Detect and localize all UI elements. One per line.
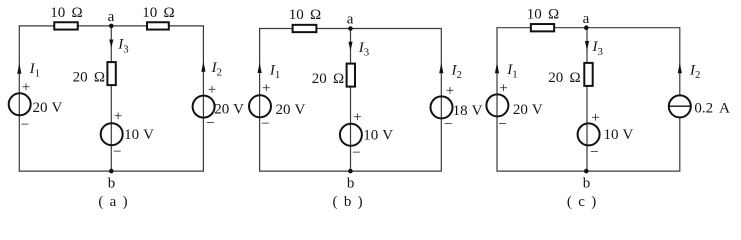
current arrow I1 (circuit c) bbox=[495, 62, 518, 81]
svg-text:−: − bbox=[261, 116, 269, 132]
wire: circuit (c) outer loop bbox=[497, 28, 680, 171]
resistor 20 ohm (circuit b) bbox=[312, 64, 355, 87]
svg-text:b: b bbox=[347, 175, 355, 191]
svg-text:+: + bbox=[353, 110, 361, 126]
svg-text:I3: I3 bbox=[358, 40, 369, 59]
resistor 20 ohm (circuit a) bbox=[73, 62, 116, 85]
svg-text:−: − bbox=[113, 144, 121, 160]
svg-text:20 Ω: 20 Ω bbox=[312, 71, 344, 87]
svg-text:20 Ω: 20 Ω bbox=[73, 69, 105, 85]
svg-text:10 Ω: 10 Ω bbox=[289, 7, 321, 23]
resistor 10 ohm (circuit c, top #1) bbox=[527, 7, 559, 32]
svg-text:10 V: 10 V bbox=[363, 128, 393, 144]
svg-text:10 V: 10 V bbox=[604, 127, 634, 143]
svg-text:I2: I2 bbox=[689, 62, 700, 81]
current arrow I2 (circuit c) bbox=[678, 62, 701, 81]
svg-text:I3: I3 bbox=[592, 39, 603, 58]
svg-text:+: + bbox=[499, 81, 507, 97]
svg-text:20 V: 20 V bbox=[276, 102, 306, 118]
svg-text:I2: I2 bbox=[211, 60, 222, 79]
node a (circuit b) bbox=[347, 11, 354, 30]
node b (circuit b) bbox=[347, 169, 355, 192]
svg-text:−: − bbox=[499, 116, 507, 132]
current arrow I2 (circuit b) bbox=[439, 62, 462, 81]
wire: circuit (b) middle branch from node a to node b bbox=[350, 29, 352, 172]
voltage source 10 V (circuit c, middle branch) bbox=[578, 110, 634, 161]
node a (circuit c) bbox=[583, 11, 590, 30]
current source 0.2 A (circuit c, right branch) bbox=[668, 95, 730, 117]
svg-text:+: + bbox=[22, 80, 30, 96]
voltage source 20 V (circuit c, left branch) bbox=[486, 81, 542, 133]
svg-text:20 Ω: 20 Ω bbox=[548, 70, 580, 86]
svg-text:+: + bbox=[262, 81, 270, 97]
wire: circuit (a) middle branch from node a to node b bbox=[110, 26, 112, 171]
svg-text:+: + bbox=[114, 108, 122, 124]
svg-text:a: a bbox=[347, 11, 354, 27]
svg-text:b: b bbox=[583, 176, 591, 192]
resistor 10 ohm (circuit a, top #2) bbox=[142, 5, 174, 29]
voltage source 20 V (circuit a, left branch) bbox=[9, 80, 63, 133]
svg-text:10 Ω: 10 Ω bbox=[142, 5, 174, 21]
svg-text:0.2 A: 0.2 A bbox=[694, 100, 730, 116]
svg-text:I3: I3 bbox=[117, 37, 128, 56]
svg-text:b: b bbox=[108, 176, 116, 192]
svg-text:20 V: 20 V bbox=[214, 102, 244, 118]
svg-text:+: + bbox=[446, 83, 454, 99]
svg-text:I1: I1 bbox=[506, 62, 517, 81]
wire: circuit (c) middle branch from node a to node b bbox=[586, 28, 588, 171]
voltage source 20 V (circuit a, right branch) bbox=[193, 82, 245, 131]
svg-text:18 V: 18 V bbox=[453, 103, 483, 119]
svg-text:a: a bbox=[108, 9, 115, 25]
voltage source 18 V (circuit b, right branch) bbox=[431, 83, 483, 133]
svg-text:+: + bbox=[591, 110, 599, 126]
svg-text:20 V: 20 V bbox=[513, 102, 543, 118]
wire: circuit (b) outer loop bbox=[260, 29, 442, 172]
current arrow I3 (circuit b) bbox=[348, 40, 369, 59]
current arrow I2 (circuit a) bbox=[201, 60, 222, 79]
svg-text:I1: I1 bbox=[269, 62, 280, 81]
svg-text:I2: I2 bbox=[451, 62, 462, 81]
node a (circuit a) bbox=[108, 9, 115, 28]
svg-text:10 V: 10 V bbox=[124, 127, 154, 143]
wire: circuit (a) outer loop bbox=[19, 26, 203, 171]
node b (circuit a) bbox=[108, 169, 116, 192]
voltage source 20 V (circuit b, left branch) bbox=[249, 81, 305, 133]
resistor 20 ohm (circuit c) bbox=[548, 63, 592, 86]
svg-text:+: + bbox=[208, 82, 216, 98]
resistor 10 ohm (circuit a, top #1) bbox=[50, 5, 82, 29]
svg-text:a: a bbox=[583, 11, 590, 27]
svg-text:10 Ω: 10 Ω bbox=[50, 5, 82, 21]
svg-text:( c ): ( c ) bbox=[567, 194, 596, 210]
current arrow I3 (circuit a) bbox=[109, 37, 128, 56]
svg-text:( a ): ( a ) bbox=[98, 194, 127, 210]
voltage source 10 V (circuit a, middle branch) bbox=[101, 108, 154, 160]
svg-text:−: − bbox=[444, 117, 452, 133]
svg-text:−: − bbox=[590, 145, 598, 161]
current arrow I1 (circuit a) bbox=[17, 61, 40, 80]
svg-text:( b ): ( b ) bbox=[332, 194, 362, 210]
resistor 10 ohm (circuit b, top #1) bbox=[289, 7, 321, 32]
svg-text:20 V: 20 V bbox=[33, 100, 63, 116]
node b (circuit c) bbox=[583, 169, 591, 192]
voltage source 10 V (circuit b, middle branch) bbox=[340, 110, 393, 162]
svg-text:10 Ω: 10 Ω bbox=[527, 7, 559, 23]
svg-text:−: − bbox=[352, 145, 360, 161]
current arrow I1 (circuit b) bbox=[258, 62, 281, 81]
svg-text:I1: I1 bbox=[29, 61, 40, 80]
svg-text:−: − bbox=[206, 115, 214, 131]
svg-text:−: − bbox=[21, 117, 29, 133]
current arrow I3 (circuit c) bbox=[585, 39, 603, 58]
